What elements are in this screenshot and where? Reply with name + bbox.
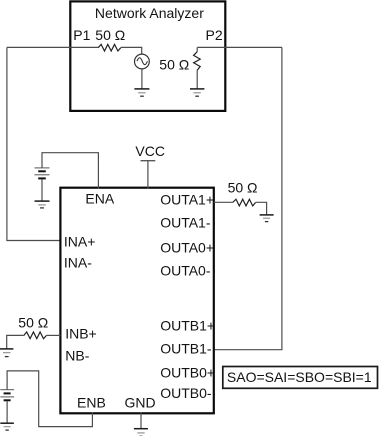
wire R3 to ground bbox=[256, 202, 267, 214]
VCC terminal bar bbox=[141, 160, 156, 162]
svg-text:OUTA1-: OUTA1- bbox=[160, 215, 211, 231]
IC box U1 bbox=[60, 188, 213, 414]
svg-text:50 Ω: 50 Ω bbox=[18, 314, 48, 330]
wire R2 to ground bbox=[196, 70, 198, 89]
wire top of R2 to P2 net bbox=[197, 46, 282, 48]
resistor R3 (horizontal zigzag) bbox=[233, 199, 256, 206]
ground G6 bbox=[0, 423, 14, 430]
wire R1 to source bbox=[121, 47, 142, 54]
svg-text:OUTB0-: OUTB0- bbox=[160, 385, 212, 401]
svg-text:VCC: VCC bbox=[135, 143, 165, 159]
wire P1 net down left side to INA+ bbox=[7, 47, 60, 240]
source V1 (sine generator) bbox=[135, 54, 150, 69]
svg-text:OUTB1+: OUTB1+ bbox=[160, 318, 215, 334]
svg-text:P2: P2 bbox=[206, 27, 223, 43]
svg-text:OUTA0+: OUTA0+ bbox=[160, 239, 214, 255]
note box SAO=SAI=SBO=SBI=1 bbox=[223, 367, 378, 389]
svg-text:OUTA1+: OUTA1+ bbox=[160, 192, 214, 208]
ground G2 bbox=[190, 89, 204, 96]
svg-text:ENB: ENB bbox=[77, 395, 106, 411]
battery B1 bbox=[35, 168, 50, 179]
svg-text:GND: GND bbox=[125, 395, 156, 411]
svg-text:SAO=SAI=SBO=SBI=1: SAO=SAI=SBO=SBI=1 bbox=[227, 369, 372, 385]
resistor R4 (horizontal zigzag) bbox=[24, 332, 47, 339]
svg-text:INB+: INB+ bbox=[65, 326, 97, 342]
svg-text:INA-: INA- bbox=[64, 255, 92, 271]
svg-text:50 Ω: 50 Ω bbox=[95, 27, 125, 43]
ground G4 bbox=[260, 215, 274, 222]
ground G7 bbox=[134, 429, 148, 436]
wire INB+ to R4 bbox=[46, 334, 60, 336]
wire ENA to battery B1 bbox=[42, 153, 98, 189]
svg-text:50 Ω: 50 Ω bbox=[228, 179, 258, 195]
wire OUTA1+ to R3 bbox=[214, 201, 233, 203]
wire P2 net down right side to OUTB1- bbox=[214, 47, 282, 349]
svg-text:Network Analyzer: Network Analyzer bbox=[95, 5, 204, 21]
ground G1 bbox=[134, 89, 149, 96]
wire P1 lead bbox=[7, 46, 98, 48]
Network Analyzer box bbox=[70, 1, 225, 111]
svg-text:OUTA0-: OUTA0- bbox=[160, 262, 211, 278]
ground G3 bbox=[35, 201, 50, 208]
ground G5 bbox=[0, 349, 13, 357]
resistor R1 (horizontal zigzag) bbox=[98, 44, 121, 51]
wire R4 to ground bbox=[7, 335, 24, 348]
svg-text:50 Ω: 50 Ω bbox=[159, 56, 189, 72]
wire ENB to battery B2 bbox=[7, 371, 92, 427]
svg-text:OUTB1-: OUTB1- bbox=[160, 340, 212, 356]
svg-text:P1: P1 bbox=[73, 27, 90, 43]
svg-text:OUTB0+: OUTB0+ bbox=[160, 364, 215, 380]
battery B2 bbox=[0, 390, 14, 401]
wire battery B1 to ground bbox=[41, 179, 43, 201]
svg-text:NB-: NB- bbox=[65, 347, 89, 363]
svg-text:INA+: INA+ bbox=[64, 233, 96, 249]
wire GND pin to ground bbox=[140, 413, 142, 429]
resistor R2 (vertical zigzag) bbox=[194, 52, 201, 70]
wire battery B2 to ground bbox=[6, 401, 8, 423]
wire VCC to box bbox=[147, 161, 149, 189]
svg-text:ENA: ENA bbox=[85, 191, 114, 207]
wire source to ground bbox=[141, 69, 143, 89]
